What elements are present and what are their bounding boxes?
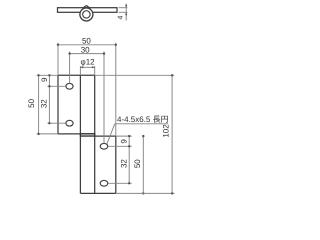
front view barrel right edge [94,75,96,193]
svg-text:50: 50 [133,159,142,168]
right dim 9 32 dimension line [128,135,130,185]
svg-text:9: 9 [119,139,128,144]
dim 4 dimension line [125,4,127,21]
top view pin inner circle [83,11,90,18]
svg-text:30: 30 [81,46,90,55]
dim 102 dimension line [171,74,173,194]
svg-text:4-4.5x6.5 長円: 4-4.5x6.5 長円 [117,115,169,124]
oblong hole lower leaf 1 [100,143,108,149]
svg-text:102: 102 [161,124,170,138]
front view upper leaf outline [58,75,95,134]
dim 50 top extension lines [58,43,116,136]
oblong hole upper leaf 1 [66,83,73,89]
dim phi12 extension lines [80,66,94,75]
svg-text:32: 32 [39,99,48,108]
dim phi12 dimension line [80,66,94,68]
left dim 50 dimension line [37,74,39,135]
left dim 9 32 extension lines [47,86,65,123]
top view knuckle tail [83,6,90,9]
svg-text:φ12: φ12 [81,58,96,67]
dim 30 dimension line [68,52,105,54]
svg-text:32: 32 [120,159,129,168]
leader underline [115,123,168,125]
oblong hole lower leaf 2 [100,180,108,186]
left dim 50 extension lines [37,75,58,134]
right dim 50 dimension line [142,135,144,195]
svg-text:50: 50 [27,98,36,107]
svg-text:50: 50 [82,36,91,45]
right dim 9 32 extension lines [108,136,132,183]
left dim 9 32 dimension line [48,74,50,124]
leader line [107,124,115,144]
knuckle junction band [80,134,94,136]
dim 4 extension lines [119,8,128,13]
front view lower leaf outline [80,136,115,193]
dim 50 top dimension line [57,44,117,46]
dim 102 extension lines [95,75,175,193]
top view barrel outer circle [80,8,93,21]
front view barrel left edge [79,75,81,193]
dim 30 extension lines [70,52,104,144]
top view bar [58,8,118,13]
oblong hole upper leaf 2 [66,120,73,126]
svg-text:9: 9 [40,77,49,82]
svg-text:4: 4 [118,16,125,20]
